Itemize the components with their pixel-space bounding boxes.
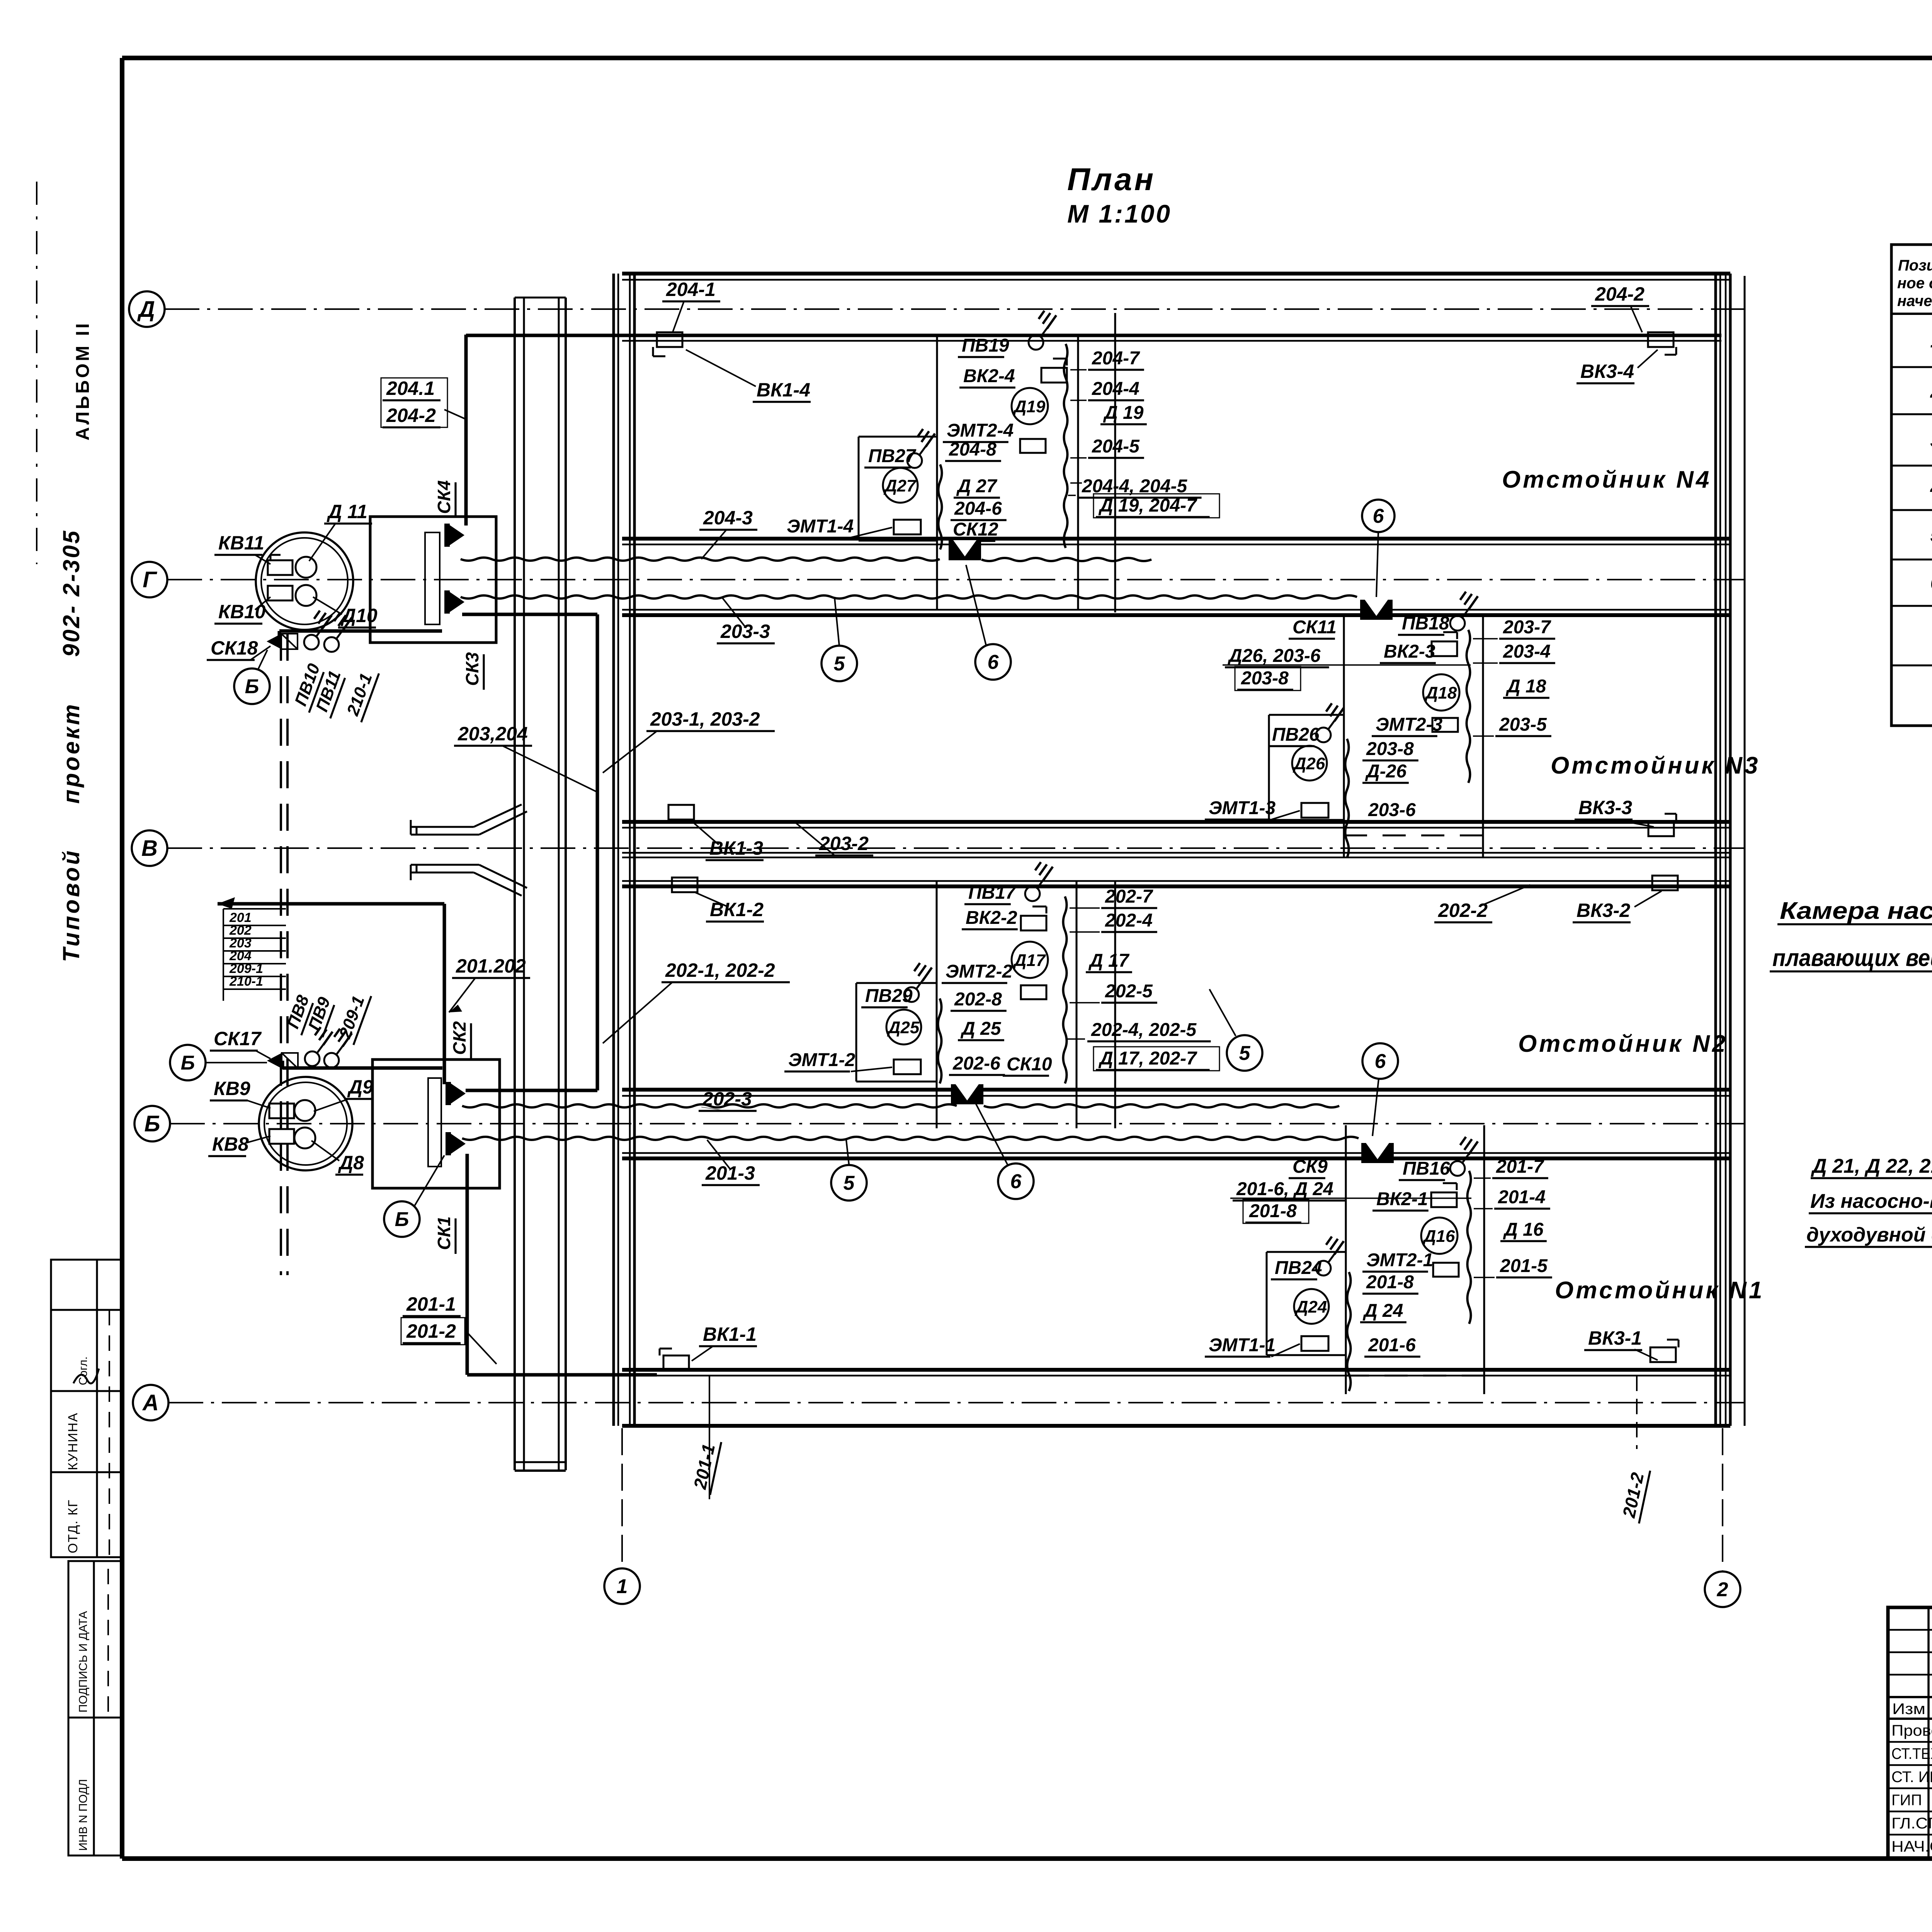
pushbutton ПВ27: [907, 453, 922, 468]
svg-text:201-8: 201-8: [1366, 1272, 1414, 1293]
svg-text:203-4: 203-4: [1503, 641, 1551, 662]
svg-text:ПВ17: ПВ17: [968, 883, 1017, 903]
tank left end walls: [612, 274, 615, 1426]
svg-text:Д 17: Д 17: [1088, 951, 1130, 971]
staff table: [1927, 1607, 1930, 1859]
motor Д 19: [1012, 388, 1048, 424]
svg-text:201-8: 201-8: [1249, 1201, 1297, 1221]
svg-text:203-1, 203-2: 203-1, 203-2: [650, 708, 760, 730]
KV10 box: [268, 586, 293, 600]
svg-text:Д17: Д17: [1013, 951, 1046, 970]
svg-text:Г: Г: [143, 567, 157, 592]
cluster CK12 leader from combined label to wavy: [1070, 482, 1082, 484]
svg-text:плавающих веществ: плавающих веществ: [1772, 945, 1932, 971]
arrow feed line: [218, 902, 444, 906]
svg-text:ЭМТ2-1: ЭМТ2-1: [1366, 1250, 1433, 1270]
tank2 top wall: [622, 880, 1730, 882]
cable 202-3 wavy: [462, 1104, 957, 1107]
motor D10: [296, 585, 316, 606]
svg-text:1: 1: [1930, 330, 1932, 352]
svg-text:1: 1: [617, 1575, 628, 1598]
svg-text:Д 16: Д 16: [1503, 1219, 1544, 1240]
svg-text:Д8: Д8: [338, 1152, 364, 1173]
trolley frame lines СК9: [1345, 1125, 1347, 1394]
201.202 riser: [443, 904, 446, 1084]
svg-text:202-5: 202-5: [1105, 981, 1153, 1002]
PV10 PV11 buttons: [304, 635, 319, 650]
VK1-4: [657, 332, 682, 347]
svg-text:ВК3-2: ВК3-2: [1577, 900, 1630, 921]
svg-text:Д 11: Д 11: [327, 501, 367, 522]
svg-text:202-3: 202-3: [702, 1088, 752, 1110]
axis D: [129, 291, 165, 327]
svg-text:201-4: 201-4: [1498, 1187, 1546, 1207]
svg-text:204-2: 204-2: [386, 405, 436, 426]
callout B upper: [234, 668, 270, 704]
svg-text:201-2: 201-2: [406, 1320, 456, 1342]
cable 204-3 wavy: [461, 558, 940, 561]
svg-text:Д19: Д19: [1013, 397, 1046, 416]
svg-text:6: 6: [1375, 1050, 1386, 1073]
svg-text:Д-26: Д-26: [1365, 761, 1406, 782]
CK2 flag: [449, 1082, 466, 1105]
scraper drive lower: outer circles: [259, 1077, 352, 1170]
201-2 rotated: [1618, 1466, 1650, 1523]
pushbutton ПВ19: [1029, 335, 1043, 350]
svg-text:ВК1-1: ВК1-1: [703, 1323, 757, 1345]
sidebar lower block: [68, 1561, 122, 1855]
svg-text:ВК2-2: ВК2-2: [966, 908, 1017, 928]
svg-text:ПВ16: ПВ16: [1403, 1158, 1450, 1179]
svg-text:ПОДПИСЬ И ДАТА: ПОДПИСЬ И ДАТА: [77, 1611, 90, 1713]
svg-text:202-8: 202-8: [954, 989, 1002, 1010]
VK3-2: [1652, 876, 1678, 890]
svg-text:201-7: 201-7: [1496, 1156, 1544, 1177]
svg-text:ЭМТ1-3: ЭМТ1-3: [1209, 798, 1276, 818]
PV8 PV9 buttons: [305, 1051, 320, 1066]
svg-text:202-4: 202-4: [1105, 910, 1153, 931]
svg-text:210-1: 210-1: [229, 974, 263, 989]
svg-text:ВК3-4: ВК3-4: [1580, 361, 1634, 382]
svg-text:М 1:100: М 1:100: [1067, 199, 1172, 228]
motor Д 16: [1421, 1218, 1458, 1254]
svg-text:Д 24: Д 24: [1362, 1301, 1403, 1321]
scraper drive upper: outer circles: [256, 532, 353, 630]
svg-text:204-6: 204-6: [954, 498, 1002, 519]
svg-text:СК4: СК4: [434, 480, 454, 514]
axis V: [132, 830, 167, 866]
svg-text:204-8: 204-8: [949, 439, 997, 460]
sheet frame: [122, 56, 1932, 60]
svg-text:Д 18: Д 18: [1505, 676, 1546, 697]
left margin vertical texts: [73, 321, 93, 440]
svg-text:ПВ19: ПВ19: [962, 335, 1009, 356]
dashed box bottoms under clusters: [1344, 835, 1483, 837]
tank1 top wall: [622, 1152, 1730, 1154]
platform box lower: [372, 1060, 500, 1188]
svg-text:Типовой: Типовой: [58, 849, 84, 962]
callout 6 (tank4 mid): [1362, 500, 1395, 532]
svg-text:КВ11: КВ11: [218, 532, 264, 554]
svg-text:Б: Б: [181, 1052, 195, 1074]
svg-text:Д25: Д25: [887, 1018, 920, 1037]
tank3 top wall: [622, 609, 1730, 611]
motor D11: [296, 557, 316, 578]
svg-text:ВК3-3: ВК3-3: [1578, 797, 1632, 818]
svg-text:А: А: [142, 1390, 159, 1415]
callout 5 (lower pair B): [831, 1165, 867, 1201]
cable 201-3 wavy: [462, 1137, 1359, 1140]
svg-text:202-2: 202-2: [1438, 900, 1488, 921]
svg-text:КУНИНА: КУНИНА: [66, 1412, 80, 1470]
svg-text:201-5: 201-5: [1500, 1256, 1548, 1276]
svg-text:Отстойник N1: Отстойник N1: [1555, 1277, 1764, 1304]
KV11 box: [268, 560, 293, 575]
CK18 flag: [267, 634, 281, 649]
svg-text:201-1: 201-1: [406, 1293, 456, 1315]
svg-text:201-6, Д 24: 201-6, Д 24: [1236, 1179, 1333, 1199]
svg-text:СК3: СК3: [462, 652, 482, 686]
svg-text:ПВ27: ПВ27: [868, 446, 917, 466]
svg-text:203-7: 203-7: [1503, 617, 1551, 638]
svg-text:Из насосно-воз-: Из насосно-воз-: [1810, 1190, 1932, 1213]
svg-text:204.1: 204.1: [386, 378, 435, 399]
svg-text:203,204: 203,204: [457, 723, 528, 745]
VK1-3: [668, 805, 694, 820]
svg-text:Отстойник N4: Отстойник N4: [1502, 466, 1711, 493]
svg-text:НАЧ.ОТД.: НАЧ.ОТД.: [1891, 1838, 1932, 1855]
svg-text:204-3: 204-3: [703, 507, 753, 529]
motor Д26: [1292, 746, 1327, 781]
svg-text:ЭМТ1-1: ЭМТ1-1: [1209, 1335, 1276, 1355]
axis G: [132, 562, 167, 597]
svg-text:КВ10: КВ10: [218, 601, 266, 622]
svg-text:5: 5: [844, 1172, 855, 1194]
cable CK18 to platform: [279, 629, 442, 633]
trolley frame lines СК11: [1343, 615, 1345, 857]
svg-text:Б: Б: [144, 1111, 160, 1136]
motor Д 17: [1012, 942, 1048, 978]
svg-text:СК11: СК11: [1293, 617, 1337, 638]
VK3-3: [1648, 821, 1674, 836]
svg-text:203-2: 203-2: [819, 833, 869, 854]
wire flexible run right: [1064, 344, 1068, 548]
svg-text:КВ8: КВ8: [212, 1133, 249, 1155]
axis 2: [1705, 1571, 1740, 1607]
svg-text:4: 4: [1930, 477, 1932, 500]
svg-text:духодувной станции: духодувной станции: [1806, 1224, 1932, 1246]
svg-text:ПВ24: ПВ24: [1275, 1258, 1322, 1278]
VK1-2: [672, 878, 697, 892]
tank2 bottom wall: [622, 1088, 1730, 1092]
svg-text:Б: Б: [245, 675, 259, 698]
svg-text:ВК1-4: ВК1-4: [757, 379, 810, 401]
wire flexible run right: [1063, 896, 1067, 1083]
svg-text:3: 3: [1930, 429, 1932, 452]
svg-text:ЭМТ1-4: ЭМТ1-4: [787, 516, 854, 537]
svg-text:201.202: 201.202: [456, 955, 526, 977]
svg-text:начение: начение: [1897, 293, 1932, 310]
trolley beam verticals tank4 / tank2: [1114, 313, 1116, 612]
motor Д27: [883, 468, 918, 503]
svg-text:ПВ18: ПВ18: [1402, 613, 1449, 634]
svg-text:Д 17, 202-7: Д 17, 202-7: [1098, 1048, 1197, 1069]
wire flexible run right: [1468, 1171, 1471, 1324]
svg-text:АЛЬБОМ II: АЛЬБОМ II: [73, 321, 93, 440]
svg-text:План: План: [1067, 162, 1156, 197]
pushbutton ПВ29: [904, 987, 919, 1002]
svg-text:Д 19, 204-7: Д 19, 204-7: [1098, 495, 1197, 516]
pushbutton ПВ17: [1025, 886, 1040, 901]
204 riser cable: [464, 335, 468, 526]
axis A: [133, 1385, 168, 1420]
paper edge dash-dot left: [36, 182, 37, 564]
trolley frame lines СК12: [936, 337, 938, 611]
CK17 flag: [267, 1053, 282, 1068]
pipe connector upper (axis V): [410, 820, 412, 835]
feed channel verticals (left): [514, 298, 516, 1470]
svg-text:СК10: СК10: [1007, 1054, 1052, 1075]
svg-text:ВК2-3: ВК2-3: [1384, 641, 1435, 662]
svg-text:203-8: 203-8: [1366, 739, 1414, 759]
svg-text:6: 6: [1930, 572, 1932, 594]
callout B lower: [384, 1201, 420, 1237]
201-1 rotated: [689, 1437, 721, 1495]
svg-text:проект: проект: [58, 702, 84, 804]
callout B (CK17): [170, 1045, 206, 1080]
svg-text:В: В: [141, 836, 158, 861]
svg-text:Д 25: Д 25: [960, 1019, 1002, 1039]
svg-text:СТ.ТЕХНИК: СТ.ТЕХНИК: [1891, 1745, 1932, 1762]
svg-text:Б: Б: [395, 1208, 409, 1231]
wavy right of CK12 bowtie: [981, 558, 1151, 561]
motor D9: [294, 1100, 315, 1121]
svg-text:ИНВ N ПОДЛ: ИНВ N ПОДЛ: [77, 1779, 90, 1851]
CK1 flag: [449, 1132, 466, 1155]
svg-text:5: 5: [1239, 1042, 1251, 1065]
svg-text:ГИП: ГИП: [1891, 1792, 1922, 1809]
svg-text:ное обоз-: ное обоз-: [1897, 275, 1932, 292]
svg-text:ГЛ.СПЕЦ.: ГЛ.СПЕЦ.: [1891, 1815, 1932, 1832]
svg-text:204-1: 204-1: [666, 279, 716, 300]
svg-text:6: 6: [1010, 1170, 1022, 1193]
right outer line: [1744, 276, 1746, 1426]
callout 6 (lower pair B): [998, 1163, 1034, 1199]
callout 6 (lower pair A): [1362, 1043, 1398, 1079]
svg-text:Д 19: Д 19: [1103, 403, 1144, 423]
title block outline: [1888, 1607, 1932, 1859]
VK3-1: [1650, 1347, 1676, 1362]
motor Д 18: [1423, 674, 1459, 711]
wire flexible run right: [1467, 630, 1470, 783]
203,204 cable run: [462, 613, 597, 616]
svg-text:204-2: 204-2: [1595, 283, 1645, 305]
svg-text:Д9: Д9: [347, 1076, 373, 1098]
svg-text:203-3: 203-3: [720, 621, 770, 642]
svg-text:203-8: 203-8: [1241, 668, 1289, 689]
tank1 outer bottom: [622, 1424, 1730, 1428]
svg-text:Д16: Д16: [1422, 1227, 1455, 1246]
svg-text:КВ9: КВ9: [214, 1078, 250, 1099]
callout 5 (lower pair A): [1227, 1035, 1262, 1071]
wire flexible run left: [1347, 1272, 1351, 1391]
svg-text:СК9: СК9: [1293, 1156, 1328, 1177]
tank3 bottom wall: [622, 820, 1730, 824]
svg-text:203-5: 203-5: [1499, 714, 1547, 735]
pushbutton ПВ24: [1316, 1261, 1331, 1276]
svg-text:ВК2-4: ВК2-4: [963, 366, 1015, 386]
CK4 flag: [447, 524, 464, 547]
svg-text:6: 6: [988, 651, 999, 673]
tank4 upper inner wall / cable 204: [466, 334, 1721, 337]
axis 1: [604, 1568, 640, 1604]
svg-text:902- 2-305: 902- 2-305: [58, 529, 84, 657]
KV9 box: [269, 1104, 294, 1118]
svg-text:ЭМТ2-2: ЭМТ2-2: [946, 961, 1012, 982]
cable trench dashed: [280, 634, 282, 1275]
svg-text:Д 21, Д 22, 215, 216: Д 21, Д 22, 215, 216: [1811, 1155, 1932, 1177]
svg-text:2: 2: [1717, 1578, 1728, 1601]
KV8 box: [269, 1129, 294, 1144]
svg-text:Д 27: Д 27: [956, 476, 998, 497]
callout 5 (upper): [821, 646, 857, 681]
VK3-4: [1648, 332, 1673, 347]
svg-text:202-7: 202-7: [1105, 886, 1153, 907]
central channel lines (axis B zone): [622, 852, 1730, 854]
pushbutton ПВ18: [1450, 616, 1465, 631]
motor D8: [294, 1128, 315, 1148]
svg-text:203-6: 203-6: [1368, 800, 1416, 820]
svg-text:202-6: 202-6: [952, 1053, 1000, 1074]
svg-text:5: 5: [1930, 524, 1932, 546]
svg-text:ВК3-1: ВК3-1: [1588, 1327, 1642, 1349]
sidebar upper block: [51, 1260, 122, 1557]
201-1/201-2 riser down: [466, 1154, 469, 1375]
VK1-1: [663, 1355, 689, 1370]
platform box upper: [370, 517, 496, 643]
svg-text:СТ. ИНЖ: СТ. ИНЖ: [1891, 1769, 1932, 1786]
wire flexible run left: [938, 998, 942, 1083]
svg-text:Отстойник N2: Отстойник N2: [1518, 1031, 1728, 1057]
CK3 flag: [447, 590, 464, 614]
svg-text:Д18: Д18: [1424, 684, 1457, 702]
svg-text:Проверил: Проверил: [1891, 1722, 1932, 1739]
svg-text:Отстойник N3: Отстойник N3: [1551, 752, 1760, 779]
svg-text:202-1, 202-2: 202-1, 202-2: [665, 959, 775, 981]
svg-text:6: 6: [1373, 505, 1384, 527]
svg-text:Д27: Д27: [883, 476, 917, 495]
svg-text:ОТД. КГ: ОТД. КГ: [66, 1499, 80, 1553]
svg-text:ВК2-1: ВК2-1: [1376, 1189, 1428, 1209]
svg-text:ЭМТ1-2: ЭМТ1-2: [788, 1050, 855, 1070]
motor Д25: [886, 1010, 921, 1044]
callout 6 (upper): [975, 644, 1011, 680]
svg-text:201-3: 201-3: [705, 1162, 755, 1184]
svg-text:СК12: СК12: [953, 519, 998, 540]
svg-text:ПВ26: ПВ26: [1272, 724, 1320, 745]
svg-text:5: 5: [834, 653, 845, 675]
cable 203-3 wavy: [461, 595, 1357, 599]
svg-text:Изм: Изм: [1892, 1701, 1925, 1718]
axis B (lower): [134, 1106, 170, 1141]
wire flexible run left: [939, 464, 942, 549]
svg-text:202-4, 202-5: 202-4, 202-5: [1091, 1020, 1197, 1040]
svg-text:Д24: Д24: [1294, 1298, 1327, 1316]
tank1 bottom wall: [622, 1368, 1730, 1372]
svg-text:Позицион-: Позицион-: [1898, 257, 1932, 274]
wire flexible run left: [1345, 739, 1349, 858]
svg-text:2: 2: [1930, 380, 1932, 402]
svg-text:ВК1-3: ВК1-3: [709, 837, 763, 859]
svg-text:СК1: СК1: [434, 1216, 454, 1250]
pushbutton ПВ26: [1316, 728, 1331, 742]
trolley frame lines СК10: [936, 882, 938, 1128]
svg-text:СК2: СК2: [449, 1021, 469, 1055]
motor Д24: [1294, 1289, 1329, 1324]
pipe connector lower (axis V): [410, 865, 412, 880]
svg-text:ЭМТ2-4: ЭМТ2-4: [947, 420, 1014, 441]
svg-text:Д: Д: [137, 297, 155, 322]
svg-text:СК17: СК17: [214, 1028, 262, 1049]
tank right end walls: [1714, 274, 1717, 1426]
tank 4 top wall: [622, 272, 1730, 276]
tank4 bottom wall: [622, 537, 1730, 541]
svg-text:Д26, 203-6: Д26, 203-6: [1227, 646, 1321, 666]
svg-text:201-6: 201-6: [1368, 1335, 1416, 1355]
cable CK17 right: [282, 1066, 442, 1070]
svg-text:ПВ29: ПВ29: [865, 986, 913, 1006]
svg-text:Д26: Д26: [1293, 754, 1325, 773]
svg-text:СК18: СК18: [211, 637, 258, 659]
channel bottom foot: [515, 1461, 566, 1463]
pushbutton ПВ16: [1450, 1161, 1465, 1176]
spec table: [1891, 245, 1932, 726]
svg-text:Камера насосов: Камера насосов: [1780, 898, 1932, 924]
